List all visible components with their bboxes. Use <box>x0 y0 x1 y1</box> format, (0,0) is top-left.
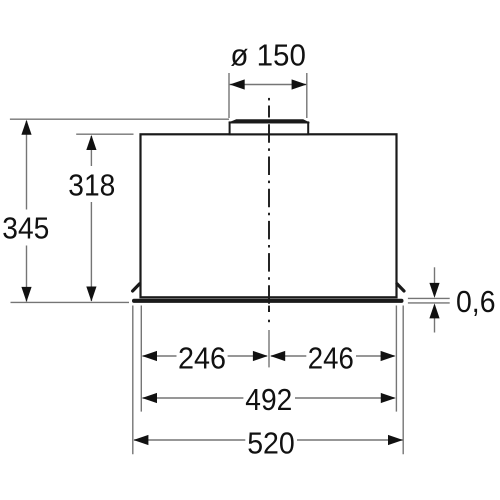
bottom lip plate <box>132 299 404 303</box>
dim 246 center-right arrow <box>270 351 285 361</box>
dia 150 extension line left <box>228 73 230 118</box>
dia 150 left arrow <box>230 79 245 89</box>
svg-text:520: 520 <box>247 427 295 461</box>
extension line bottom inner right (492/246) <box>395 306 397 412</box>
svg-text:345: 345 <box>2 212 49 246</box>
dim 246 center-left arrow <box>253 351 268 361</box>
dim 246 right-end arrow <box>381 351 396 361</box>
dim 345 bottom arrow <box>21 287 31 302</box>
svg-text:246: 246 <box>308 342 354 376</box>
dim 318 line <box>90 136 92 301</box>
dim 0,6 lower arrow <box>429 303 439 318</box>
dim 345 line <box>26 121 28 302</box>
dim 345 top arrow <box>21 120 31 135</box>
svg-text:0,6: 0,6 <box>456 285 496 319</box>
dim 492 left arrow <box>142 393 157 403</box>
dim 492 right arrow <box>381 393 396 403</box>
dim 0,6 upper line <box>434 267 436 284</box>
center line dash below lip <box>268 306 270 312</box>
dim 520 right arrow <box>388 435 403 445</box>
right bend mark <box>397 284 404 291</box>
dim 0,6 upper arrow <box>429 283 439 298</box>
dim 246 left-end arrow <box>142 351 157 361</box>
svg-text:318: 318 <box>68 168 115 202</box>
duct collar base <box>230 122 309 134</box>
dim 492 line <box>143 397 395 399</box>
center extension line below lip <box>268 330 270 367</box>
duct collar flange <box>229 120 309 123</box>
extension line bottom outer left (520) <box>132 306 134 455</box>
hood body outline <box>141 134 397 297</box>
dia 150 extension line right <box>306 73 308 118</box>
svg-text:246: 246 <box>178 342 226 376</box>
dim 0,6 extension line lower <box>408 302 450 304</box>
dim 318 top arrow <box>86 135 96 150</box>
dim 520 left arrow <box>133 435 148 445</box>
svg-text:ø 150: ø 150 <box>230 39 306 73</box>
center line dash-dot <box>268 106 270 313</box>
dim 0,6 lower line <box>434 318 436 333</box>
extension line bottom-left (345/318, lip bottom level) <box>11 301 130 303</box>
dim 318 bottom arrow <box>86 287 96 302</box>
dim 0,6 extension line upper <box>408 297 450 299</box>
extension line top (345, collar top level) <box>10 118 229 120</box>
dim 520 line <box>134 439 403 441</box>
left bend mark <box>133 284 140 291</box>
dia 150 dim line <box>230 84 307 86</box>
extension line bottom inner left (492/246) <box>140 306 142 412</box>
extension line top (318, box top level) <box>76 133 133 135</box>
dim 246 left line <box>143 355 395 357</box>
dia 150 right arrow <box>292 79 307 89</box>
center line top dot <box>268 98 270 101</box>
svg-text:492: 492 <box>245 383 292 417</box>
center line lower dot <box>268 320 270 323</box>
extension line bottom outer right (520) <box>402 306 404 455</box>
